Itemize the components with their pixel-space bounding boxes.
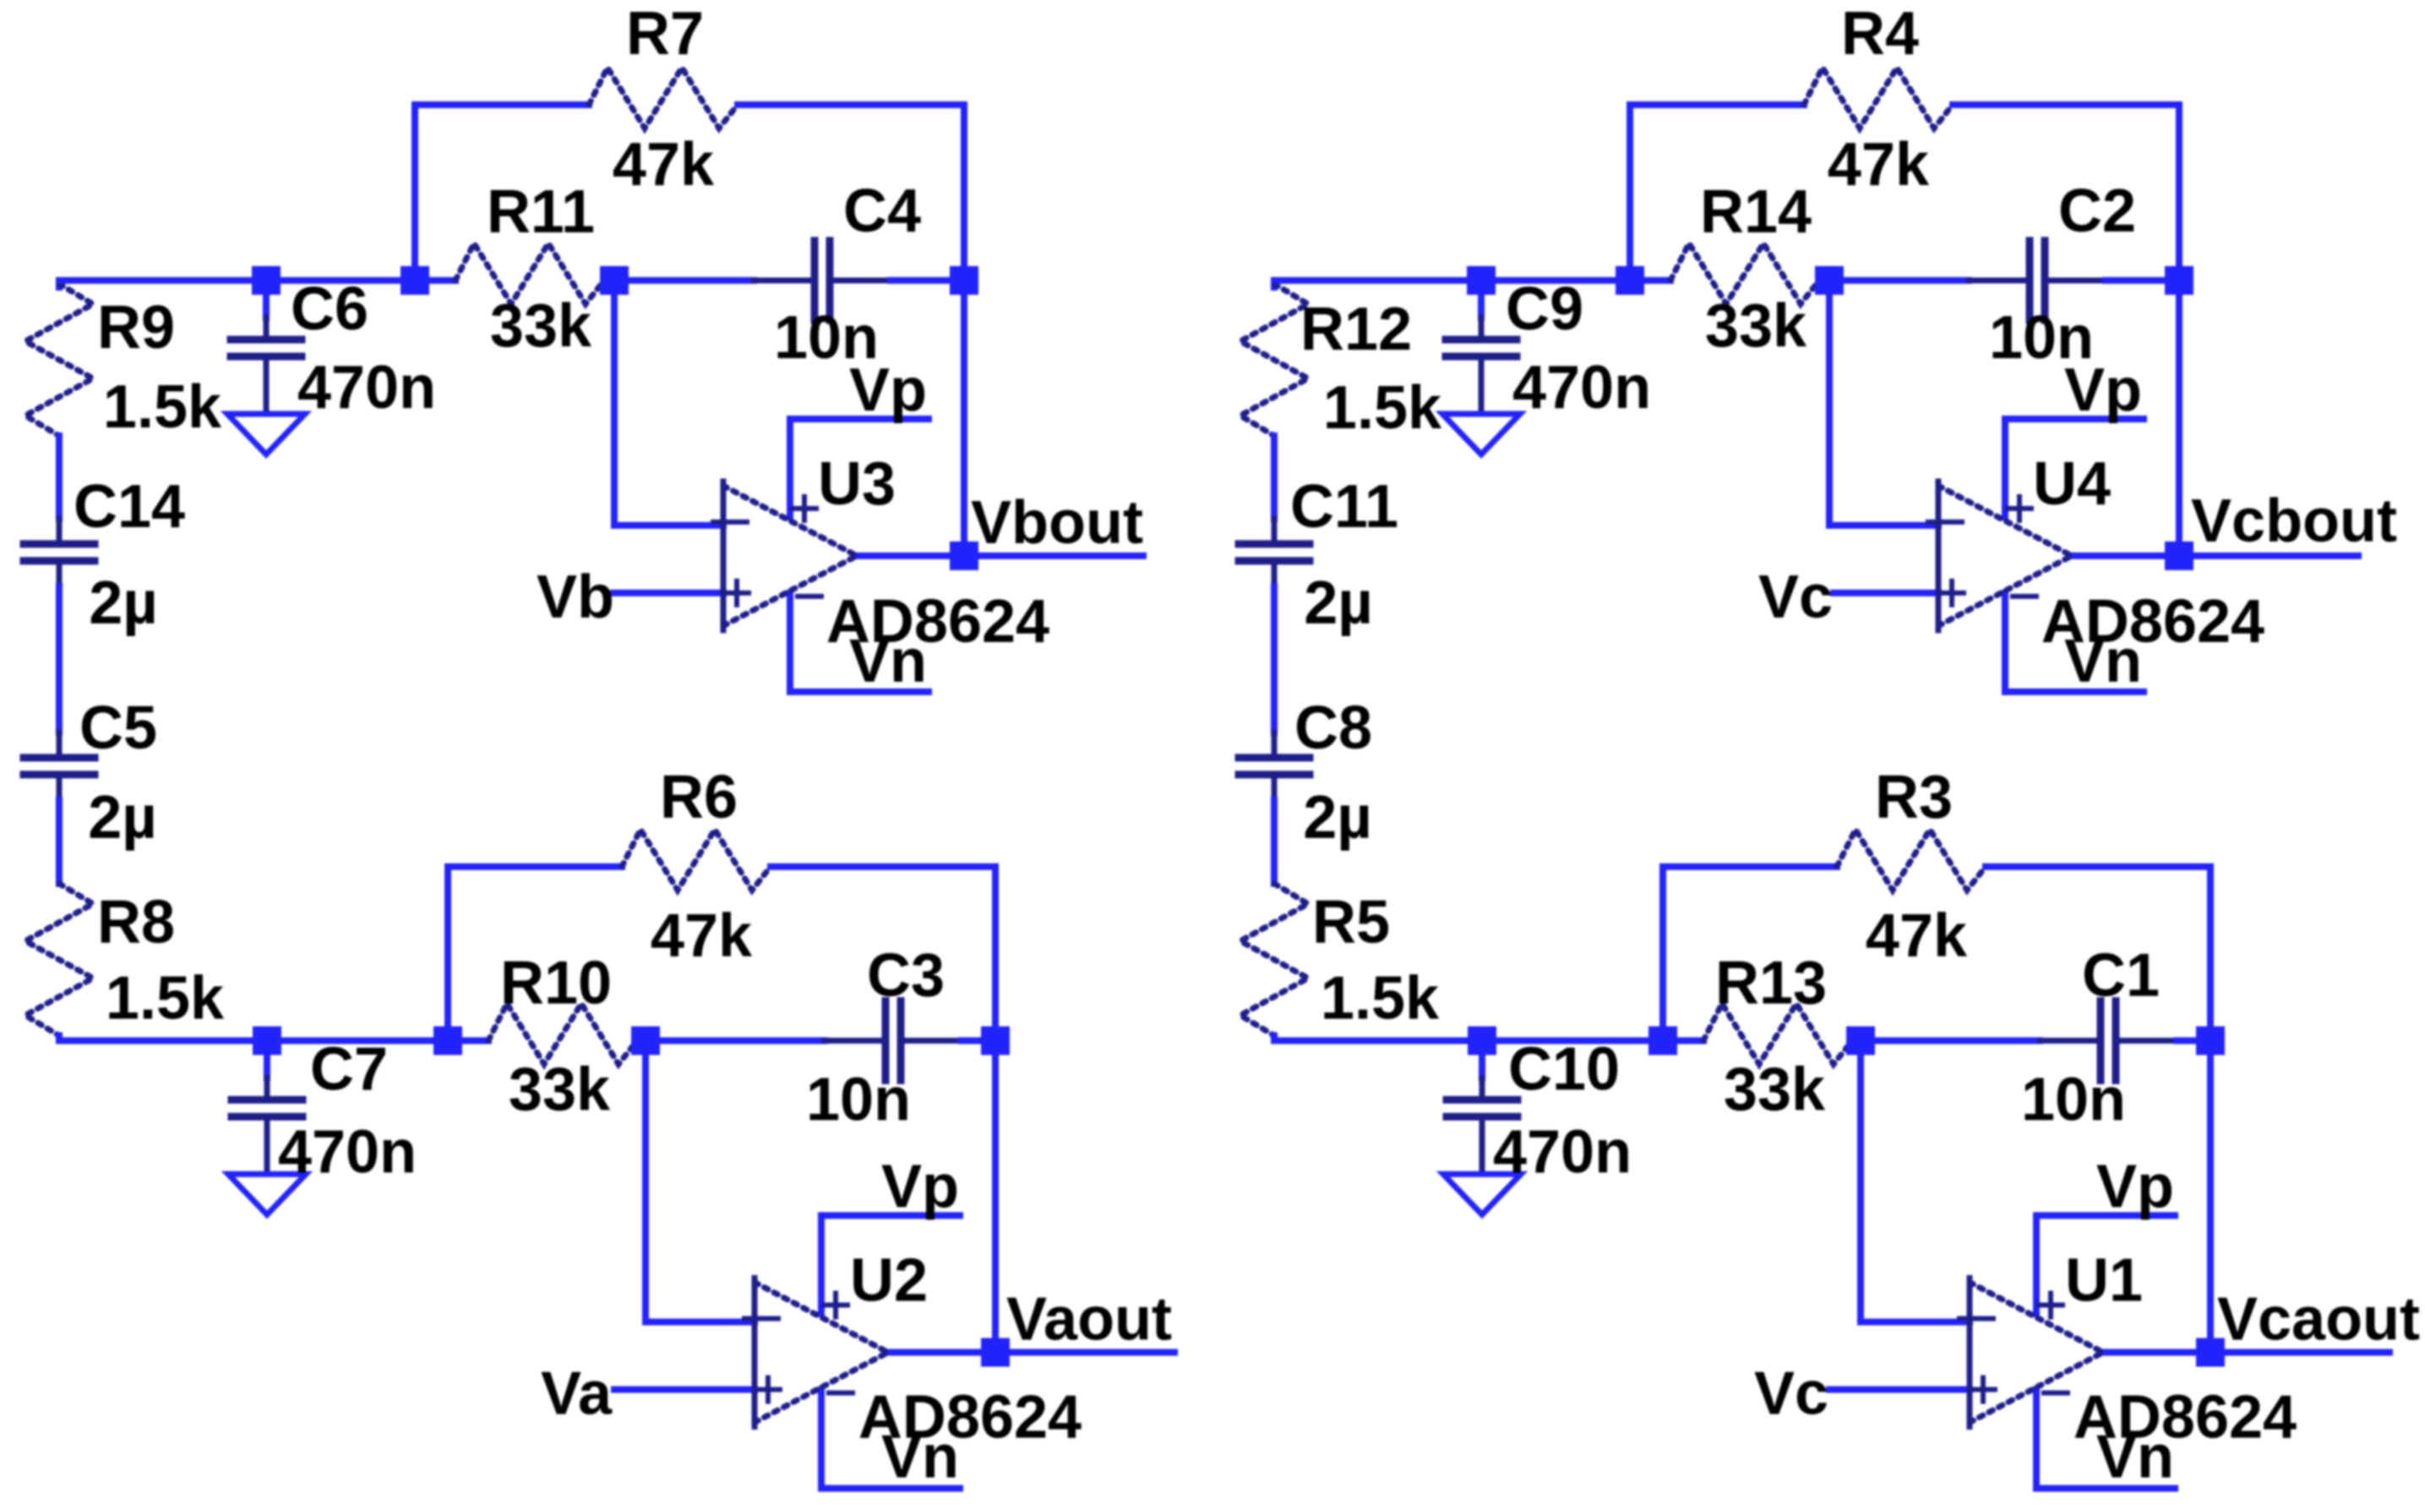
capacitor C1 10n [2040,1001,2177,1080]
capacitor C9 470n to ground [1446,286,1517,414]
svg-text:R14: R14 [1700,178,1812,246]
svg-text:Va: Va [541,1360,613,1428]
wire feedback TR right riser to output [1953,105,2179,556]
wire inverting input feed TR [1829,287,1938,525]
op-amp U1 AD8624 [1959,1216,2390,1488]
capacitor C6 470n to ground [231,286,302,414]
junction R13 right node [1846,1026,1875,1055]
capacitor C2 10n [1969,241,2106,320]
svg-text:2µ: 2µ [88,784,157,851]
wire inverting input feed BL [646,1047,755,1322]
resistor R12 1.5k vertical [1240,284,1308,436]
op-amp U2 AD8624 [744,1216,1174,1488]
wire main net TR left segment [1274,277,1670,284]
svg-text:C10: C10 [1508,1036,1620,1103]
svg-text:R6: R6 [660,764,738,831]
wire Vc input TR [1834,590,1938,596]
svg-text:Vp: Vp [849,356,927,424]
capacitor C14 2u [24,519,95,586]
junction feedback tap BR [1648,1026,1677,1055]
svg-text:C9: C9 [1506,275,1583,343]
op-amp U3 AD8624 [713,419,1143,692]
resistor R10 33k [488,1003,637,1064]
wire R5 bottom stub [1271,1036,1278,1041]
capacitor C10 470n to ground [1447,1046,1518,1174]
svg-text:Vc: Vc [1758,563,1833,631]
svg-text:47k: 47k [1828,131,1930,199]
wire main net TR middle segment [1819,277,1969,284]
wire R8 bottom stub [56,1036,63,1041]
capacitor C4 10n [754,241,891,320]
svg-text:R8: R8 [97,889,175,956]
svg-text:C7: C7 [310,1036,388,1103]
svg-text:C1: C1 [2082,942,2160,1009]
svg-text:Vc: Vc [1754,1360,1828,1428]
resistor R6 47k feedback [622,829,771,890]
resistor R5 1.5k vertical [1240,884,1308,1036]
svg-text:Vp: Vp [2096,1153,2174,1221]
junction feedback tap TL [401,266,429,295]
svg-text:Vn: Vn [849,628,927,695]
svg-text:1.5k: 1.5k [103,373,222,441]
svg-text:U1: U1 [2065,1247,2143,1314]
wire main net BR middle segment [1852,1037,2040,1044]
svg-text:Vb: Vb [537,563,614,631]
junction R10 right node [631,1026,660,1055]
junction R14 right node [1815,266,1844,295]
wire main net TL left segment [59,277,455,284]
svg-text:33k: 33k [1724,1056,1826,1123]
wire Va input BL [614,1386,755,1393]
wire Vb input TL [613,590,723,596]
resistor R9 1.5k vertical [25,284,93,436]
op-amp U4 AD8624 [1928,419,2358,692]
wire C8 to R5 [1271,800,1278,884]
svg-text:Vn: Vn [881,1423,959,1491]
wire main net BL right segment [962,1037,995,1044]
resistor R13 33k [1703,1003,1852,1064]
svg-text:33k: 33k [509,1056,611,1123]
capacitor C11 2u [1239,519,1310,586]
wire inverting input feed BR [1861,1047,1970,1322]
svg-text:R7: R7 [626,0,704,68]
svg-text:1.5k: 1.5k [1323,374,1442,442]
capacitor C8 2u [1239,732,1310,800]
wire feedback TR left riser [1630,105,1804,280]
svg-text:Vcaout: Vcaout [2217,1286,2420,1353]
svg-text:470n: 470n [278,1118,417,1186]
junction C3 right node [981,1026,1010,1055]
svg-text:U2: U2 [850,1247,928,1314]
wire inverting input feed TL [614,287,723,525]
capacitor C3 10n [825,1001,962,1080]
svg-text:Vn: Vn [2064,628,2142,695]
svg-text:Vaout: Vaout [1006,1286,1172,1353]
svg-text:Vn: Vn [2096,1423,2174,1491]
resistor R7 47k feedback [589,68,738,128]
junction C10 node [1468,1026,1496,1055]
svg-text:1.5k: 1.5k [106,965,225,1032]
svg-text:2µ: 2µ [1304,569,1373,637]
ground symbol below C9 [1442,414,1520,454]
resistor R11 33k [455,243,604,304]
svg-text:C11: C11 [1290,473,1398,541]
ground symbol below C6 [227,414,305,454]
wire feedback TL left riser [415,105,589,280]
svg-text:C5: C5 [79,694,157,762]
junction feedback tap BL [433,1026,462,1055]
svg-text:47k: 47k [1866,902,1968,970]
wire Vc input BR [1829,1386,1970,1393]
svg-text:Vp: Vp [881,1153,959,1221]
wire C5 to R8 [56,800,63,884]
junction C1 right node [2196,1026,2225,1055]
resistor R8 1.5k vertical [25,884,93,1036]
svg-text:470n: 470n [1493,1118,1632,1186]
svg-text:47k: 47k [651,902,753,970]
svg-text:R9: R9 [97,294,175,362]
ground symbol below C10 [1443,1174,1521,1215]
junction C7 node [253,1026,281,1055]
wire main net TL middle segment [604,277,754,284]
svg-text:R5: R5 [1312,889,1390,956]
svg-text:C14: C14 [74,473,185,541]
svg-text:33k: 33k [490,292,592,360]
svg-text:1.5k: 1.5k [1321,965,1440,1032]
resistor R3 47k feedback [1837,829,1986,890]
svg-text:R4: R4 [1841,0,1919,68]
wire feedback TL right riser to output [738,105,964,556]
svg-text:10n: 10n [2021,1066,2126,1134]
wire C14 to C5 [56,586,63,732]
wire left column x=1508 top stub [1271,280,1278,287]
svg-text:470n: 470n [1512,354,1651,422]
wire main net BR left segment [1274,1037,1703,1044]
junction C9 node [1467,266,1496,295]
wire main net TR right segment [2106,277,2179,284]
resistor R14 33k [1670,243,1819,304]
svg-text:2µ: 2µ [1303,784,1372,851]
wire feedback BL left riser [448,867,622,1041]
junction feedback tap TR [1616,266,1644,295]
ground symbol below C7 [228,1174,306,1215]
svg-text:10n: 10n [806,1066,911,1134]
wire feedback BL right riser to output [771,867,995,1352]
svg-text:Vp: Vp [2064,356,2142,424]
svg-text:C6: C6 [291,275,368,343]
wire left column x=70 top stub [56,280,63,287]
wire main net BR right segment [2177,1037,2210,1044]
svg-text:U4: U4 [2033,450,2111,518]
capacitor C7 470n to ground [232,1046,302,1174]
svg-text:Vcbout: Vcbout [2191,487,2397,555]
wire main net BL middle segment [637,1037,825,1044]
svg-text:470n: 470n [297,354,436,422]
junction R11 right node [600,266,629,295]
svg-text:R13: R13 [1715,949,1827,1017]
svg-text:C3: C3 [867,942,945,1009]
svg-text:R10: R10 [500,949,612,1017]
svg-text:C4: C4 [843,177,921,245]
svg-text:47k: 47k [613,131,715,199]
wire feedback BR right riser to output [1986,867,2210,1352]
svg-text:33k: 33k [1705,292,1807,360]
wire feedback BR left riser [1663,867,1837,1041]
capacitor C5 2u [24,732,95,800]
svg-text:2µ: 2µ [89,569,158,637]
wire C11 to C8 [1271,586,1278,732]
resistor R4 47k feedback [1804,68,1953,128]
svg-text:R11: R11 [487,178,595,246]
svg-text:C2: C2 [2058,177,2136,245]
svg-text:Vbout: Vbout [971,489,1143,557]
wire main net TL right segment [891,277,964,284]
junction C2 right node [2165,266,2193,295]
junction C4 right node [950,266,978,295]
junction C6 node [252,266,281,295]
svg-text:R3: R3 [1875,764,1953,831]
svg-text:C8: C8 [1294,694,1372,762]
wire main net BL left segment [59,1037,488,1044]
wire R9 to C14 [56,436,63,519]
svg-text:R12: R12 [1300,296,1412,363]
wire R12 to C11 [1271,436,1278,519]
svg-text:U3: U3 [818,450,896,518]
